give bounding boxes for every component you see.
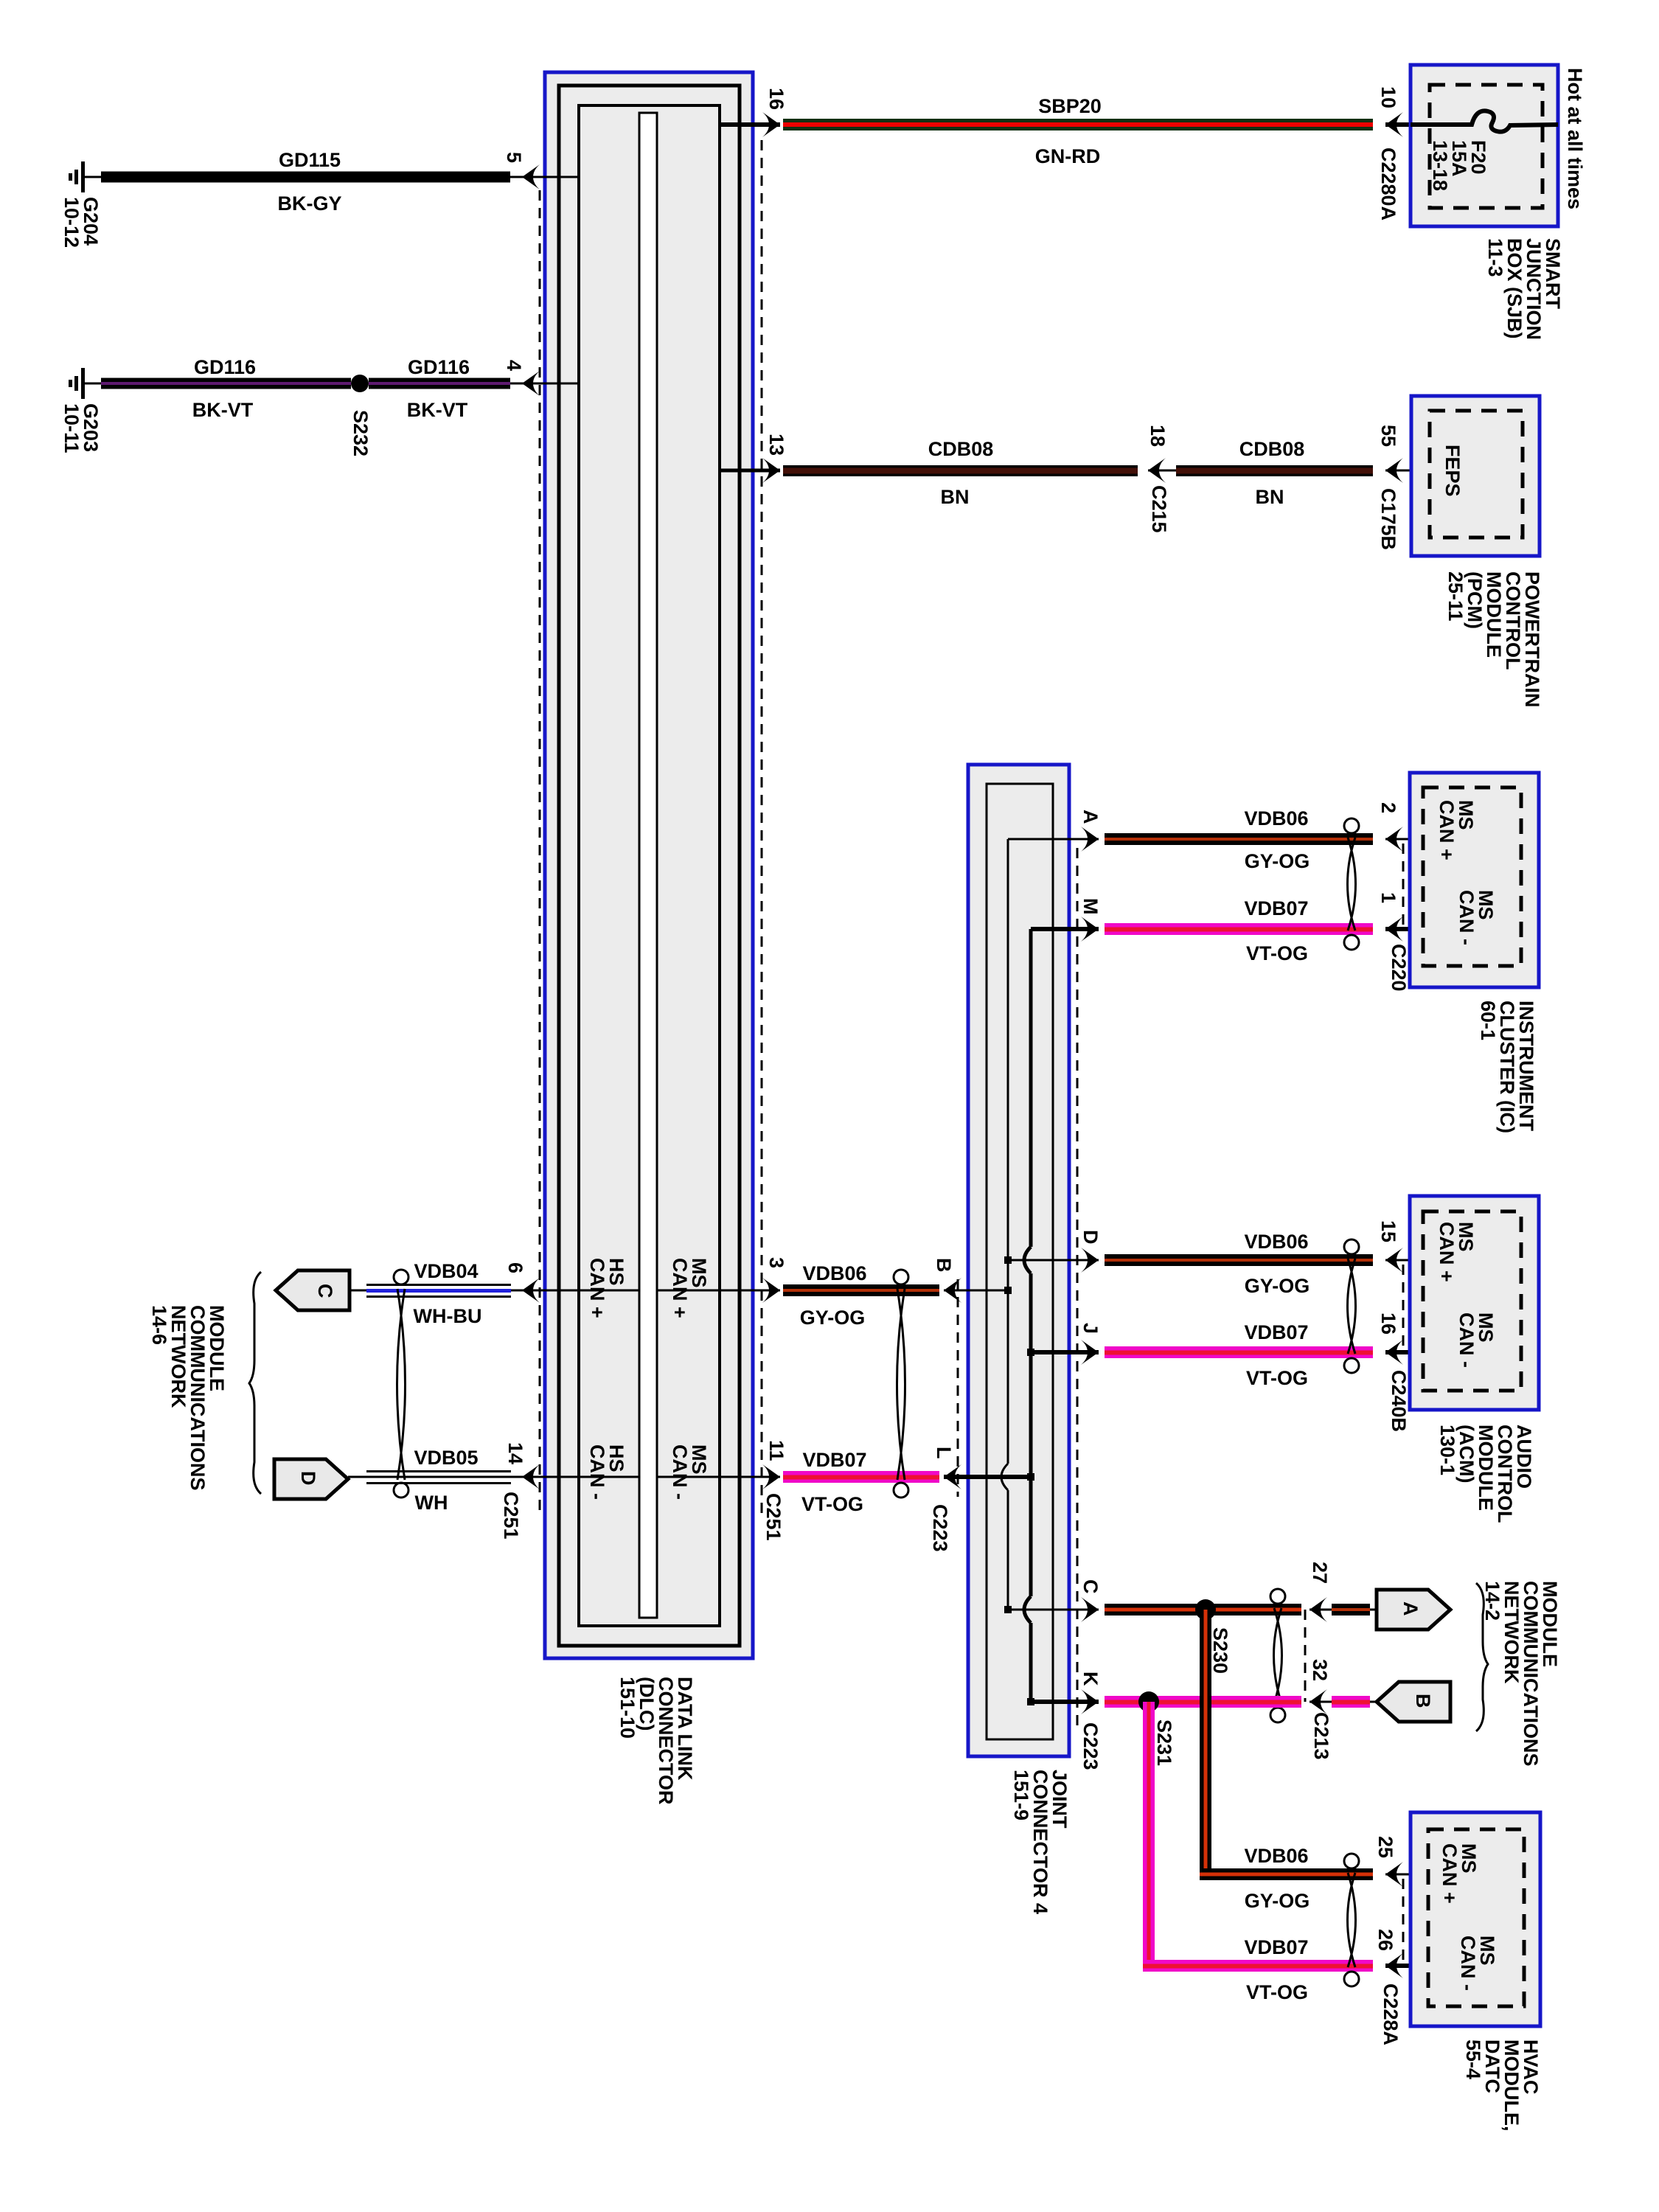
svg-text:VDB06: VDB06 [1244,1845,1308,1867]
JC pin K arrow [1081,1689,1099,1714]
twisted pair T6 [1344,1854,1359,1986]
powertrain control module PCM box [1411,396,1540,556]
DLC pin 14 lead [512,1476,639,1478]
svg-text:S231: S231 [1153,1719,1175,1766]
svg-text:WH-BU: WH-BU [414,1305,482,1327]
DLC pin 6 lead [512,1290,639,1292]
DLC pin 6 arrow [522,1278,540,1303]
ACM pin 16 arrow [1385,1340,1403,1365]
JC pin J lead [1031,1350,1099,1354]
DLC pin 11 arrow [762,1464,780,1489]
DLC inner rect B [579,105,720,1626]
lead to flag B [1370,1701,1380,1703]
svg-text:G20310-11: G20310-11 [60,403,102,453]
svg-text:GD116: GD116 [194,356,256,378]
svg-text:15: 15 [1377,1220,1399,1242]
SJB pin 10 lead [1385,122,1411,127]
DLC pin 3 lead [657,1290,780,1292]
svg-text:J: J [1079,1323,1102,1334]
JC left dashed connector line C223 [957,1279,959,1497]
IC pin 1 lead [1385,927,1423,931]
wire GD116 BK-VT left segment [101,378,351,389]
JC bus B hop at row D [1024,1247,1031,1273]
wire VDB07 VT-OG to HVAC 26 [1143,1960,1373,1972]
JC right dashed connector line C223 [1077,848,1079,1731]
splice S230 [1195,1599,1216,1620]
C213 tail row C [1310,1609,1336,1611]
DLC pin 14 arrow [522,1464,540,1489]
wire VDB04 WH-BU [366,1284,511,1298]
svg-text:B: B [1412,1694,1434,1708]
svg-text:VDB07: VDB07 [802,1449,866,1471]
IC pin 1 arrow [1385,917,1403,942]
svg-text:GD116: GD116 [408,356,470,378]
svg-text:55: 55 [1377,425,1399,447]
svg-text:VDB04: VDB04 [414,1260,478,1282]
JC internal bus B [1029,929,1033,1702]
twisted pair T2 [894,1270,908,1498]
svg-text:GD115: GD115 [279,149,341,171]
JC pin D junction square [1004,1256,1012,1264]
JC pin A arrow [1081,827,1099,852]
svg-text:BN: BN [941,486,970,508]
connector C213 dashed line [1304,1610,1307,1702]
svg-text:3: 3 [765,1257,787,1268]
svg-text:10: 10 [1377,86,1399,108]
svg-text:13: 13 [765,434,787,456]
svg-text:VDB07: VDB07 [1244,1936,1308,1958]
twisted pair T5 [1270,1589,1285,1722]
HVAC pin 26 lead [1385,1964,1428,1968]
SJB fuse block dashed box [1430,85,1543,208]
svg-text:27: 27 [1309,1562,1331,1584]
svg-text:C2280A: C2280A [1377,147,1399,220]
wire GD116 BK-VT right segment [369,378,510,389]
svg-text:SBP20: SBP20 [1038,95,1102,117]
svg-text:VDB07: VDB07 [1244,897,1308,919]
wire GY-OG stub to flag A [1332,1604,1370,1615]
svg-text:D: D [1079,1230,1102,1245]
DLC pin 5 lead [510,176,579,178]
wire VT-OG stub to flag B [1332,1696,1370,1708]
svg-text:D: D [297,1471,319,1486]
svg-text:VT-OG: VT-OG [1246,1367,1308,1389]
svg-text:CDB08: CDB08 [1239,438,1305,460]
svg-text:C213: C213 [1310,1712,1332,1760]
JC pin K junction square [1027,1698,1034,1705]
JC pin J arrow [1081,1340,1099,1365]
svg-text:2: 2 [1377,802,1399,813]
svg-text:L: L [933,1447,955,1459]
HVAC pin 25 arrow [1385,1862,1403,1887]
wire VDB05 WH lead from flag [348,1476,521,1478]
twisted pair T1 [394,1270,408,1498]
brace module communications network 14-6 [249,1272,261,1494]
instrument cluster IC box [1410,773,1539,987]
lead to flag A [1370,1609,1380,1611]
svg-text:C223: C223 [929,1504,951,1552]
svg-text:VT-OG: VT-OG [1246,1981,1308,2003]
svg-text:C251: C251 [500,1492,522,1540]
svg-text:16: 16 [765,88,787,110]
svg-text:C251: C251 [762,1493,785,1541]
JC bus B hop at row C [1024,1596,1031,1623]
IC pin 2 lead [1385,838,1423,841]
splice S232 [351,375,369,392]
JC pin L junction square [1027,1473,1034,1481]
vertical wire GY-OG from S230 down [1200,1610,1211,1880]
svg-text:6: 6 [504,1262,526,1273]
svg-text:BK-VT: BK-VT [192,399,254,421]
svg-text:C223: C223 [1079,1722,1102,1770]
DLC pin 5 arrow [522,164,540,189]
HVAC dashed box [1428,1829,1524,2006]
connector C228A dashed line [1402,1879,1405,1967]
DLC inner rect A [559,86,740,1646]
DLC pin 4 lead [510,383,579,385]
svg-text:C228A: C228A [1380,1983,1402,2045]
svg-text:VT-OG: VT-OG [801,1493,863,1515]
wire VDB05 WH [366,1470,511,1484]
svg-text:14: 14 [504,1442,526,1464]
svg-text:4: 4 [503,360,525,371]
DLC pin 16 lead [720,122,780,127]
wire VDB07 VT-OG DLC11 to JC L [783,1471,939,1483]
JC internal bus A [1007,839,1009,1610]
DLC pin 16 arrow [762,112,780,137]
wire SBP20 GN-RD [783,119,1373,131]
svg-text:VDB06: VDB06 [802,1262,866,1284]
vertical wire VT-OG from S231 down [1143,1702,1155,1972]
JC pin J junction square [1027,1349,1034,1356]
JC pin D lead [1008,1259,1099,1262]
svg-text:11: 11 [765,1440,787,1461]
JC pin C lead [1008,1609,1099,1611]
svg-text:GY-OG: GY-OG [800,1307,866,1329]
wire GD115 BK-GY [101,172,510,183]
C213 tail row K [1310,1701,1336,1703]
C213 arrow row C [1310,1597,1327,1622]
svg-text:VDB06: VDB06 [1244,1231,1308,1253]
svg-text:WH: WH [415,1492,448,1514]
DLC pin 4 arrow [522,371,540,396]
svg-text:K: K [1079,1672,1102,1686]
svg-text:VDB06: VDB06 [1244,807,1308,829]
joint connector 4 box [968,765,1069,1756]
smart junction box SJB [1411,65,1558,226]
ground G204 [69,161,101,192]
ACM pin 15 arrow [1385,1248,1403,1273]
svg-text:VDB07: VDB07 [1244,1321,1308,1343]
svg-text:GN-RD: GN-RD [1035,145,1101,167]
svg-text:C175B: C175B [1377,488,1399,550]
JC pin M arrow [1081,917,1099,942]
svg-text:FEPS: FEPS [1441,445,1464,497]
DLC pin 13 arrow [762,458,780,483]
IC pin 2 arrow [1385,827,1403,852]
PCM pin 55 arrow [1385,458,1403,483]
fuse F20 15A element [1411,111,1558,131]
svg-text:M: M [1079,898,1102,915]
connector C220 dashed line [1402,844,1405,931]
svg-text:S232: S232 [349,410,372,456]
wire VDB04 WH-BU lead from flag [349,1290,521,1292]
wire VDB06 GY-OG JC A to IC 2 [1105,833,1373,845]
svg-text:26: 26 [1374,1929,1397,1951]
twisted pair T3 [1344,818,1359,950]
svg-text:1: 1 [1377,892,1399,903]
twisted pair T4 [1344,1239,1359,1373]
svg-text:GY-OG: GY-OG [1245,850,1310,872]
brace module communications network 14-2 [1476,1583,1488,1731]
svg-text:BK-GY: BK-GY [278,192,342,215]
connector C240B dashed line [1402,1265,1405,1354]
JC pin C junction square [1004,1606,1012,1613]
DLC center slot [639,113,657,1618]
wire VDB06 GY-OG DLC3 to JC B [783,1284,939,1296]
HVAC pin 25 lead [1385,1874,1428,1876]
off-page connector flag B [1377,1682,1450,1722]
connector C215 arrow [1148,458,1166,483]
svg-text:C: C [1079,1579,1102,1594]
JC pin C arrow [1081,1597,1099,1622]
svg-text:C: C [314,1284,336,1298]
svg-text:25: 25 [1374,1836,1397,1858]
ACM pin 15 lead [1385,1259,1423,1262]
wire CDB08 BN left segment [783,465,1138,476]
wire VDB07 VT-OG JC J to ACM 16 [1105,1346,1373,1358]
svg-text:G20410-12: G20410-12 [60,197,102,248]
IC dashed box [1423,787,1521,966]
svg-text:16: 16 [1377,1312,1399,1335]
svg-text:C240B: C240B [1388,1370,1410,1432]
JC pin B lead [944,1290,1008,1292]
PCM pin 55 lead [1385,470,1431,472]
ground G203 [69,368,101,399]
splice S231 [1138,1691,1159,1712]
data link connector DLC outer box [545,72,753,1658]
JC pin A lead [1008,838,1099,841]
svg-text:S230: S230 [1209,1627,1231,1674]
audio control module ACM box [1410,1196,1539,1410]
C213 arrow row K [1310,1689,1327,1714]
DLC pin 3 arrow [762,1278,780,1303]
off-page connector flag D [274,1459,348,1499]
JC pin B arrow [944,1278,961,1303]
off-page connector flag C [276,1270,349,1310]
HVAC module DATC box [1411,1812,1540,2026]
C215 tail line [1148,470,1176,472]
JC pin L lead [944,1475,1031,1479]
ACM dashed box [1423,1211,1521,1391]
SJB pin 10 arrow [1385,112,1403,137]
wire CDB08 BN right segment [1176,465,1373,476]
svg-text:BN: BN [1256,486,1284,508]
svg-text:Hot at all times: Hot at all times [1564,68,1586,209]
DLC left dashed connector line [539,190,541,1511]
ACM pin 16 lead [1385,1350,1423,1354]
DLC right dashed connector line [761,140,763,1520]
svg-text:BK-VT: BK-VT [407,399,468,421]
svg-text:B: B [933,1258,955,1273]
svg-text:32: 32 [1309,1659,1331,1681]
HVAC pin 26 arrow [1385,1953,1403,1978]
svg-text:CDB08: CDB08 [928,438,994,460]
svg-text:5: 5 [503,152,525,163]
wire GY-OG JC C to S230 and on to arrow 27 [1105,1604,1301,1615]
svg-text:GY-OG: GY-OG [1245,1890,1310,1912]
svg-text:C215: C215 [1148,485,1170,533]
DLC pin 11 lead [657,1476,780,1478]
JC pin D arrow [1081,1248,1099,1273]
JC pin M lead [1031,927,1099,931]
JC pin L arrow [944,1464,961,1489]
JC inner rect [987,784,1053,1739]
svg-text:VT-OG: VT-OG [1246,942,1308,964]
svg-text:A: A [1399,1601,1422,1616]
off-page connector flag A [1377,1590,1450,1630]
wire VDB06 GY-OG to HVAC 25 [1200,1868,1373,1880]
JC pin B junction square [1004,1287,1012,1294]
JC bus A hop at row L [1001,1464,1008,1490]
svg-text:18: 18 [1147,425,1169,447]
svg-text:GY-OG: GY-OG [1245,1275,1310,1297]
svg-text:VDB05: VDB05 [414,1447,478,1469]
wire VT-OG JC K to S231 and on to arrow 32 [1105,1696,1301,1708]
wire VDB07 VT-OG JC M to IC 1 [1105,923,1373,935]
wire VDB06 GY-OG JC D to ACM 15 [1105,1254,1373,1266]
DLC pin 13 lead [720,469,780,473]
JC pin K lead [1031,1700,1099,1704]
svg-text:C220: C220 [1388,944,1410,992]
svg-text:A: A [1079,810,1102,824]
PCM FEPS dashed box [1430,411,1523,538]
